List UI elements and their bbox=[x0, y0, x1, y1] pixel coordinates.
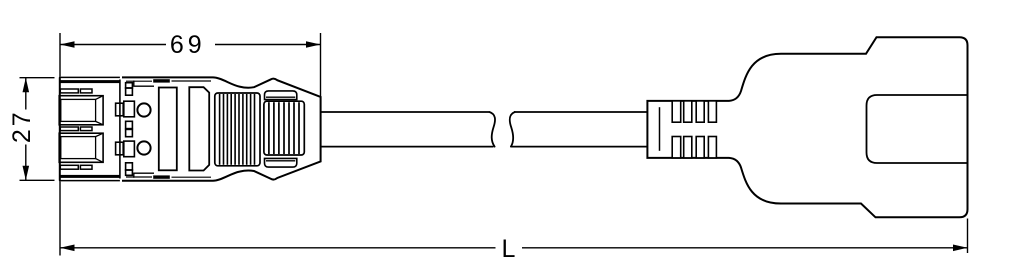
plug screw hole circle 2 bbox=[137, 141, 150, 154]
plug carrier bar rows bbox=[60, 89, 92, 169]
strain relief bottom slots bbox=[672, 137, 716, 158]
socket strain relief and body outline bbox=[647, 37, 967, 217]
plug contact carrier outline bbox=[59, 77, 120, 180]
cable break squiggle left bbox=[490, 112, 496, 147]
plug contact prong 2 bbox=[59, 133, 103, 162]
dimension 27 extension lines bbox=[20, 78, 55, 181]
plug housing inner shoulder lines bbox=[134, 81, 154, 178]
plug screw hole circle 1 bbox=[137, 103, 150, 116]
svg-text:L: L bbox=[502, 235, 516, 263]
dimension 69 extension lines bbox=[60, 33, 321, 97]
dimension L dim-line bbox=[60, 247, 968, 249]
cable break squiggle right bbox=[510, 112, 515, 147]
plug latch button 1 bbox=[124, 101, 135, 117]
socket face recess bbox=[867, 95, 968, 163]
plug ribbed grip 1 bbox=[215, 93, 260, 166]
plug latch column small rects bbox=[126, 83, 133, 176]
plug housing outline bbox=[122, 77, 321, 180]
plug contact prong 1 bbox=[59, 96, 103, 125]
plug ribbed grip 2 bbox=[264, 101, 304, 155]
plug ribbed grip 1 ribs bbox=[220, 94, 255, 165]
svg-text:69: 69 bbox=[170, 31, 206, 59]
plug housing step bars bbox=[153, 79, 170, 179]
plug carrier inner thick edges bbox=[59, 80, 120, 178]
dimension L extension lines bbox=[60, 182, 968, 256]
dimension 27 dim-line bbox=[25, 78, 27, 181]
cable left segment bbox=[321, 112, 494, 147]
cable right segment bbox=[512, 112, 648, 147]
strain relief top slots bbox=[672, 101, 716, 122]
dimension L arrowheads bbox=[60, 245, 968, 252]
plug latch square 2 bbox=[116, 142, 124, 155]
svg-text:27: 27 bbox=[8, 109, 36, 143]
strain relief inner line bbox=[659, 107, 661, 151]
dimension 69 arrowheads bbox=[60, 41, 321, 48]
plug latch square 1 bbox=[116, 103, 124, 116]
plug latch pill bottom bbox=[265, 158, 297, 167]
plug housing inner top lines bbox=[126, 81, 211, 177]
dimension 69 dim-line bbox=[60, 44, 321, 46]
plug label plate R1 bbox=[159, 88, 177, 171]
plug label plate R2 bbox=[189, 87, 209, 170]
dimension 27 arrowheads bbox=[23, 78, 30, 181]
plug latch button 2 bbox=[124, 141, 135, 157]
plug latch pill top bbox=[265, 91, 297, 100]
plug ribbed grip 2 ribs bbox=[269, 102, 299, 154]
